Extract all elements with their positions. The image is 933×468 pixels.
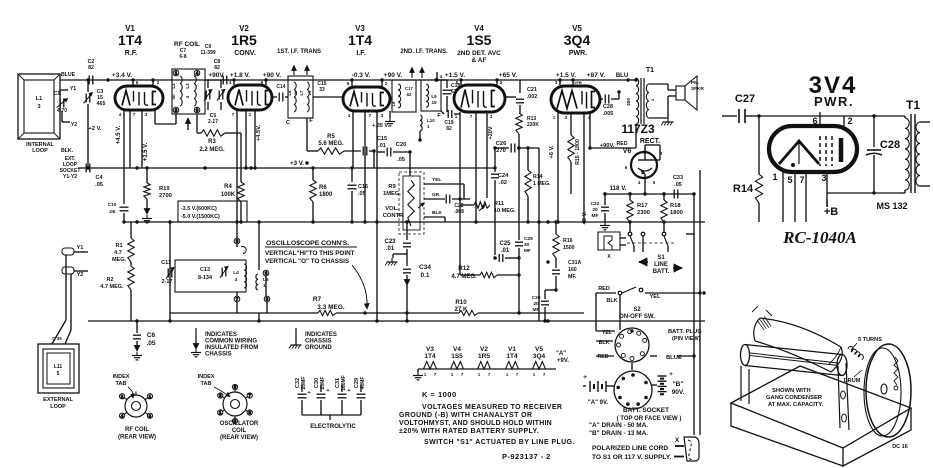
svg-text:R3: R3: [208, 139, 216, 145]
trimmer capacitor C3 15-465: [87, 80, 89, 92]
label BLK wire at R9: [432, 210, 442, 216]
label MS 132: [876, 201, 907, 211]
svg-text:"A" 9V.: "A" 9V.: [588, 400, 608, 406]
2nd IF transformer box right: [421, 80, 441, 111]
svg-text:62: 62: [407, 92, 412, 97]
wires into plug: [596, 330, 615, 332]
svg-text:L8: L8: [391, 101, 396, 106]
label BLK at plug: [599, 340, 610, 346]
svg-text:+6 V.: +6 V.: [549, 145, 555, 159]
label VERTICAL HI: [265, 250, 355, 265]
svg-text:LINE: LINE: [654, 262, 668, 268]
svg-text:-0.3 V.: -0.3 V.: [352, 72, 371, 79]
label BLK at S2: [606, 298, 617, 304]
capacitor C6 .05: [136, 321, 138, 333]
svg-text:C20: C20: [396, 142, 407, 148]
capacitor C14 33: [278, 93, 280, 102]
capacitor C18 62: [437, 79, 447, 81]
label YEL at plug: [602, 330, 613, 336]
switch S1 gang dashed: [627, 242, 676, 244]
resistor R11 10 MEG potentiometer: [474, 202, 490, 208]
svg-text:+: +: [326, 388, 329, 394]
V1 pins below: [123, 110, 125, 204]
label +20V rotated: [488, 126, 494, 139]
resistor R17 2300: [629, 194, 631, 200]
label +2V: [88, 126, 102, 132]
svg-text:LOOP: LOOP: [32, 148, 48, 154]
svg-text:-3.5 V.(600KC): -3.5 V.(600KC): [181, 206, 217, 212]
svg-text:L4: L4: [233, 270, 239, 276]
svg-text:1: 1: [772, 172, 777, 182]
3V4 grid dashes: [819, 136, 821, 166]
svg-text:ELECTROLYTIC: ELECTROLYTIC: [310, 424, 356, 430]
label V2 header: [231, 24, 257, 57]
label +90V near T1: [600, 143, 615, 149]
svg-text:POLARIZED LINE CORD: POLARIZED LINE CORD: [592, 445, 668, 452]
wire T1 secondary to speaker: [649, 83, 668, 85]
svg-text:RED: RED: [598, 286, 610, 292]
svg-text:"B": "B": [673, 381, 684, 388]
trimmer capacitor C9 gang: [205, 91, 207, 100]
svg-text:R7: R7: [313, 296, 322, 303]
capacitor C23 .01: [406, 222, 408, 240]
svg-text:+3 V.: +3 V.: [290, 160, 304, 167]
svg-text:C25: C25: [499, 241, 511, 247]
arrow right at S1: [673, 267, 682, 269]
svg-text:T1: T1: [646, 67, 654, 74]
osc terminal pigtail: [241, 247, 246, 254]
svg-text:S1: S1: [657, 255, 665, 261]
svg-text:0.1: 0.1: [420, 272, 429, 279]
svg-text:GANG CONDENSER: GANG CONDENSER: [766, 395, 823, 401]
svg-text:OSCILLO$COPE CONN'S.: OSCILLO$COPE CONN'S.: [266, 240, 349, 247]
svg-text:+1.5 V.: +1.5 V.: [556, 72, 576, 79]
RF coil L3: [194, 76, 196, 106]
capacitor C31A 160MF: [552, 269, 560, 271]
switch S1 contact B: [641, 232, 645, 236]
svg-text:T1: T1: [906, 98, 920, 112]
V5 pins below: [557, 113, 559, 140]
label C7 6-8: [179, 48, 186, 60]
svg-text:SHOWN WITH: SHOWN WITH: [772, 388, 811, 394]
svg-text:.05: .05: [109, 209, 116, 215]
V6 internal plate: [638, 159, 652, 161]
svg-text:V4: V4: [453, 346, 461, 353]
svg-text:+3.5 V.: +3.5 V.: [143, 142, 149, 161]
svg-text:RECT.: RECT.: [640, 138, 660, 145]
1st IF coil L7: [307, 82, 309, 112]
svg-text:.008: .008: [454, 209, 464, 215]
svg-text:90V.: 90V.: [672, 389, 685, 396]
resistor R6 1800: [310, 180, 316, 202]
wire Y2 down to external loop: [70, 274, 72, 330]
svg-text:TAB: TAB: [201, 381, 212, 387]
svg-text:C29: C29: [524, 236, 533, 242]
svg-text:YEL: YEL: [432, 177, 441, 183]
wire RF coil right leads: [205, 79, 232, 81]
resistor R9 1 MEG volume control: [408, 180, 414, 226]
svg-text:PWR.: PWR.: [569, 50, 587, 57]
svg-text:+: +: [307, 390, 310, 396]
resistor R1 4.7 MEG: [128, 238, 134, 262]
wire x539 vertical: [538, 148, 540, 222]
label S2 ON-OFF SW: [619, 307, 655, 320]
svg-text:K = 1000: K = 1000: [422, 390, 457, 399]
capacitor C24 .02: [494, 170, 496, 172]
svg-text:(REAR VIEW): (REAR VIEW): [118, 435, 156, 441]
resistor R15 1800: [568, 135, 574, 162]
osc terminal 8: [234, 238, 240, 244]
label INTERNAL LOOP: [26, 142, 54, 154]
wire bus y222: [124, 221, 705, 223]
svg-text:INSULATED FROM: INSULATED FROM: [205, 345, 258, 351]
label +1.5V at V5: [556, 72, 576, 79]
electrolytic C30 20MF: [314, 377, 326, 390]
T1 secondary: [646, 84, 649, 118]
svg-text:C30: C30: [532, 295, 541, 301]
label R9 VOL CONTR: [383, 184, 404, 219]
svg-text:1ST. I.F. TRANS: 1ST. I.F. TRANS: [277, 49, 321, 55]
tube V6 117Z3 envelope: [631, 152, 657, 178]
svg-text:R14: R14: [733, 183, 754, 195]
1st IF coil L6: [294, 82, 296, 112]
label YEL wire: [432, 177, 441, 183]
label ELECTROLYTIC: [310, 424, 356, 430]
label +B: [824, 206, 838, 218]
svg-text:2-17: 2-17: [161, 279, 172, 285]
label T1 detail: [906, 98, 920, 112]
svg-text:C28: C28: [603, 104, 613, 110]
trimmer capacitor C5: [218, 91, 220, 100]
label RF COIL REAR VIEW: [118, 427, 156, 441]
label A +9V at chain: [556, 351, 569, 364]
label 5 TURNS: [858, 337, 882, 343]
3V4 pin 3 lead: [826, 172, 828, 193]
capacitor C32 20MF: [604, 194, 606, 205]
svg-text:4: 4: [235, 277, 238, 283]
earth ground below V3 grid: [389, 118, 391, 122]
resistor R14 1 MEG: [525, 170, 531, 196]
wire bottom to +B: [827, 192, 900, 194]
wire left edge of coupling box: [169, 222, 171, 321]
svg-text:C31A: C31A: [568, 260, 582, 266]
svg-text:INDEX: INDEX: [198, 374, 215, 380]
label +3.5V rotated: [143, 142, 149, 161]
filament hump V1: [503, 362, 521, 370]
note voltages measured: [399, 404, 562, 435]
svg-text:L7: L7: [299, 90, 304, 96]
svg-text:I.F.: I.F.: [356, 50, 365, 57]
arrow left at S1: [639, 261, 648, 263]
svg-text:& AF: & AF: [472, 57, 487, 64]
transformer T1 detail core: [910, 114, 912, 193]
svg-text:.05: .05: [146, 340, 155, 347]
wire C27 junction to tube top rail: [757, 114, 760, 117]
index tab label oscillator coil: [198, 374, 215, 387]
B battery 90V: [658, 375, 667, 377]
transformer T1 detail secondary: [916, 122, 920, 186]
label V5 header: [564, 24, 591, 57]
svg-text:V3: V3: [426, 346, 434, 353]
svg-text:50: 50: [171, 94, 176, 100]
svg-text:C31: C31: [335, 378, 341, 388]
svg-text:GR.: GR.: [432, 192, 441, 198]
tube V5 3Q4 envelope: [551, 86, 600, 113]
spring 5 turns: [848, 347, 863, 360]
label B DRAIN: [589, 430, 648, 437]
svg-text:S2: S2: [633, 307, 641, 313]
wire V6 cathode down: [644, 174, 646, 194]
2nd IF coil L8: [398, 84, 401, 108]
resistor R18 1800: [663, 194, 665, 200]
wire C34 to bus: [406, 285, 408, 313]
wire 1st IF to V3: [313, 96, 343, 98]
svg-text:X: X: [675, 437, 680, 444]
svg-text:11-399: 11-399: [200, 50, 216, 56]
capacitor C35: [52, 336, 62, 341]
svg-text:EXTERNAL: EXTERNAL: [43, 397, 73, 403]
osc terminal 6 right: [263, 270, 269, 276]
RF coil assembly box: [172, 69, 205, 114]
label 118V: [610, 185, 627, 192]
label T1: [646, 67, 654, 74]
V1 pin 2 stub: [152, 80, 154, 86]
V2 pin stubs top: [233, 80, 235, 85]
capacitor C29 40MF: [518, 148, 520, 240]
wire top B+ rail: [60, 79, 628, 81]
svg-text:C15: C15: [377, 136, 387, 142]
output transformer T1 primary: [636, 78, 639, 124]
A battery 9V: [589, 381, 591, 392]
svg-text:4.7 MEG.: 4.7 MEG.: [100, 284, 124, 290]
svg-text:+90 V.: +90 V.: [384, 72, 403, 79]
RF coil L2: [180, 76, 182, 106]
svg-text:160: 160: [568, 267, 577, 273]
battery plug circle (pin view): [615, 328, 649, 362]
arrow to R7 junction: [352, 265, 367, 306]
svg-text:RED: RED: [598, 354, 609, 360]
svg-text:3Q4: 3Q4: [564, 32, 591, 48]
wire +3V rail: [205, 167, 495, 169]
wire V3 plate to 2nd IF: [390, 98, 392, 100]
legend insulated wiring symbol: [195, 328, 197, 344]
label BATT SOCKET: [617, 407, 682, 422]
svg-text:CHASSIS: CHASSIS: [205, 352, 232, 358]
label P-923137-2: [502, 452, 551, 461]
svg-text:2: 2: [847, 116, 852, 126]
filament hump V3: [421, 362, 439, 370]
svg-text:3.3 MEG.: 3.3 MEG.: [317, 304, 345, 311]
svg-text:±20% WITH RATED BATTERY SU: ±20% WITH RATED BATTERY SUPPLY.: [399, 428, 539, 435]
svg-text:2ND. I.F. TRANS.: 2ND. I.F. TRANS.: [400, 49, 448, 55]
wire R1 top to rail: [130, 222, 132, 238]
svg-text:40: 40: [524, 242, 530, 248]
svg-text:82: 82: [214, 65, 220, 71]
label RC-1040A: [782, 228, 857, 247]
legend chassis ground text: [305, 332, 337, 351]
gang condenser disc inner: [864, 348, 901, 436]
svg-text:C10: C10: [108, 202, 117, 208]
1st IF transformer box: [288, 76, 313, 118]
resistor R12 4.7 MEG: [480, 272, 497, 278]
label -0.3V: [352, 72, 371, 79]
svg-text:MS 132: MS 132: [876, 201, 907, 211]
electrolytic C29 40MF: [354, 377, 366, 390]
svg-text:4.7: 4.7: [114, 250, 122, 256]
svg-text:Y1: Y1: [70, 86, 76, 92]
RF coil terminal 4: [194, 70, 200, 76]
wires oscillator: [236, 244, 238, 247]
svg-text:R.F.: R.F.: [125, 50, 138, 57]
index tab label RF coil: [113, 374, 130, 387]
svg-text:R2: R2: [106, 277, 113, 283]
gang condenser disc outer: [866, 344, 911, 437]
electrolytic bottom bus: [302, 414, 361, 416]
svg-text:C30: C30: [314, 378, 320, 388]
label +4.5V rotated: [116, 125, 122, 144]
filament hump V5: [530, 362, 548, 370]
wire x519 vertical low: [518, 258, 520, 313]
svg-text:+20V: +20V: [488, 126, 494, 139]
svg-text:VOLTOHMYST, AND SHOULD HOLD: VOLTOHMYST, AND SHOULD HOLD WITHIN: [399, 420, 552, 427]
svg-text:AT MAX. CAPACITY.: AT MAX. CAPACITY.: [768, 402, 824, 408]
svg-text:8-134: 8-134: [198, 275, 213, 281]
svg-text:LOOP: LOOP: [50, 404, 66, 410]
svg-text:L2: L2: [171, 83, 176, 89]
svg-text:+65 V.: +65 V.: [499, 72, 518, 79]
tube V3 1T4 envelope: [343, 87, 390, 111]
svg-text:1T4: 1T4: [506, 353, 518, 360]
label C5 2-17: [208, 113, 218, 125]
svg-text:2.2 MEG.: 2.2 MEG.: [199, 147, 225, 153]
2nd IF transformer box left: [392, 80, 416, 112]
osc terminal 3 bottom: [264, 296, 270, 302]
label YEL at S2: [650, 294, 661, 300]
svg-text:GROUND (-B) WITH CHANALYST: GROUND (-B) WITH CHANALYST OR: [399, 412, 532, 419]
tube 3V4 envelope: [769, 126, 857, 172]
svg-text:L3: L3: [185, 83, 190, 89]
V5 pin stubs top: [559, 80, 561, 86]
label +87V: [587, 72, 606, 79]
svg-text:C6: C6: [147, 332, 156, 339]
svg-text:C24: C24: [498, 173, 509, 179]
label PWR: [814, 94, 854, 109]
capacitor C28 detail: [873, 116, 875, 147]
svg-text:CONV.: CONV.: [234, 50, 256, 57]
svg-text:27 K: 27 K: [454, 306, 468, 313]
svg-text:INDEX: INDEX: [113, 374, 130, 380]
3V4 filament triangle: [779, 141, 819, 164]
svg-text:.01: .01: [378, 143, 386, 149]
svg-text:BLUE: BLUE: [61, 72, 76, 78]
volume control R9 dashed shield: [403, 176, 420, 230]
capacitor C2 82: [88, 76, 90, 85]
wire 118V rail: [605, 193, 694, 195]
tube V2 1R5 envelope: [228, 85, 272, 110]
svg-text:+B: +B: [824, 206, 838, 218]
svg-text:R14: R14: [533, 174, 543, 180]
svg-text:PM.: PM.: [691, 80, 699, 85]
svg-text:C27: C27: [735, 93, 755, 105]
svg-text:20: 20: [307, 90, 312, 95]
svg-text:.05: .05: [95, 182, 103, 188]
label +9V rotated: [582, 211, 588, 225]
svg-text:100K: 100K: [221, 192, 236, 198]
svg-text:33: 33: [319, 87, 325, 93]
label 1st IF transformer title: [277, 49, 321, 55]
svg-text:C23: C23: [384, 239, 396, 245]
label +4.5V rotated at V2: [256, 124, 262, 141]
label 2nd IF transformer title: [400, 49, 448, 55]
svg-text:20: 20: [592, 207, 598, 213]
svg-text:C33: C33: [673, 175, 683, 181]
svg-text:5.6 MEG.: 5.6 MEG.: [318, 141, 344, 147]
svg-text:R15 - 1800: R15 - 1800: [575, 139, 581, 165]
lower Y2 terminal: [62, 267, 74, 274]
RF coil hub: [132, 402, 141, 411]
svg-text:PWR.: PWR.: [814, 94, 854, 109]
capacitor C21 .002: [505, 96, 516, 98]
svg-text:BATT. PLUG: BATT. PLUG: [668, 329, 702, 335]
svg-text:270: 270: [496, 148, 506, 154]
svg-text:#FB: #FB: [574, 80, 582, 85]
battery socket circle (top view): [614, 371, 652, 409]
V4 pins below: [459, 112, 461, 199]
svg-text:+3.4 V.: +3.4 V.: [112, 72, 132, 79]
label DC 16: [892, 444, 908, 450]
label C9 11-399: [200, 44, 216, 56]
wire down from S2: [619, 295, 621, 330]
svg-text:.01: .01: [501, 248, 510, 254]
svg-text:DC 16: DC 16: [892, 444, 908, 450]
label DRUM: [844, 378, 861, 384]
label Y1 socket: [70, 86, 76, 92]
wire V3 bottom to vol control: [419, 131, 421, 140]
svg-text:R5: R5: [327, 134, 335, 140]
svg-text:+87 V.: +87 V.: [587, 72, 606, 79]
wire Y1 to grid caps: [87, 251, 89, 253]
label S1 LINE BATT: [653, 255, 670, 275]
svg-text:R16: R16: [563, 238, 573, 244]
trimmer capacitor C11 2-17: [167, 269, 169, 278]
svg-text:20: 20: [533, 301, 539, 307]
capacitor C20 .05: [377, 151, 385, 153]
svg-text:DRUM: DRUM: [844, 378, 861, 384]
2nd IF pin 4 stub: [436, 72, 438, 80]
up arrow above 1st IF A: [293, 68, 295, 75]
svg-text:BLU: BLU: [616, 73, 628, 79]
svg-text:+4.5 V.: +4.5 V.: [116, 125, 122, 144]
svg-text:1S5: 1S5: [467, 32, 492, 48]
svg-text:1T4: 1T4: [348, 32, 372, 48]
svg-text:"A": "A": [556, 351, 566, 357]
svg-text:C26: C26: [496, 141, 507, 147]
svg-text:465: 465: [97, 101, 106, 107]
svg-text:L10: L10: [427, 118, 435, 123]
svg-text:MF: MF: [524, 248, 531, 254]
label V1 header: [118, 24, 142, 57]
capacitor C8 82: [222, 76, 224, 85]
resistor R14 detail: [758, 116, 760, 174]
switch S1 contact A: [628, 232, 632, 236]
legend chassis ground symbol: [295, 328, 297, 345]
svg-text:P-923137 - 2: P-923137 - 2: [502, 452, 551, 461]
battery socket pins: [631, 373, 635, 377]
svg-text:C14: C14: [276, 84, 285, 90]
V3 pins below: [352, 111, 354, 168]
svg-text:2300: 2300: [637, 210, 650, 216]
3V4 plate bar: [839, 138, 844, 162]
